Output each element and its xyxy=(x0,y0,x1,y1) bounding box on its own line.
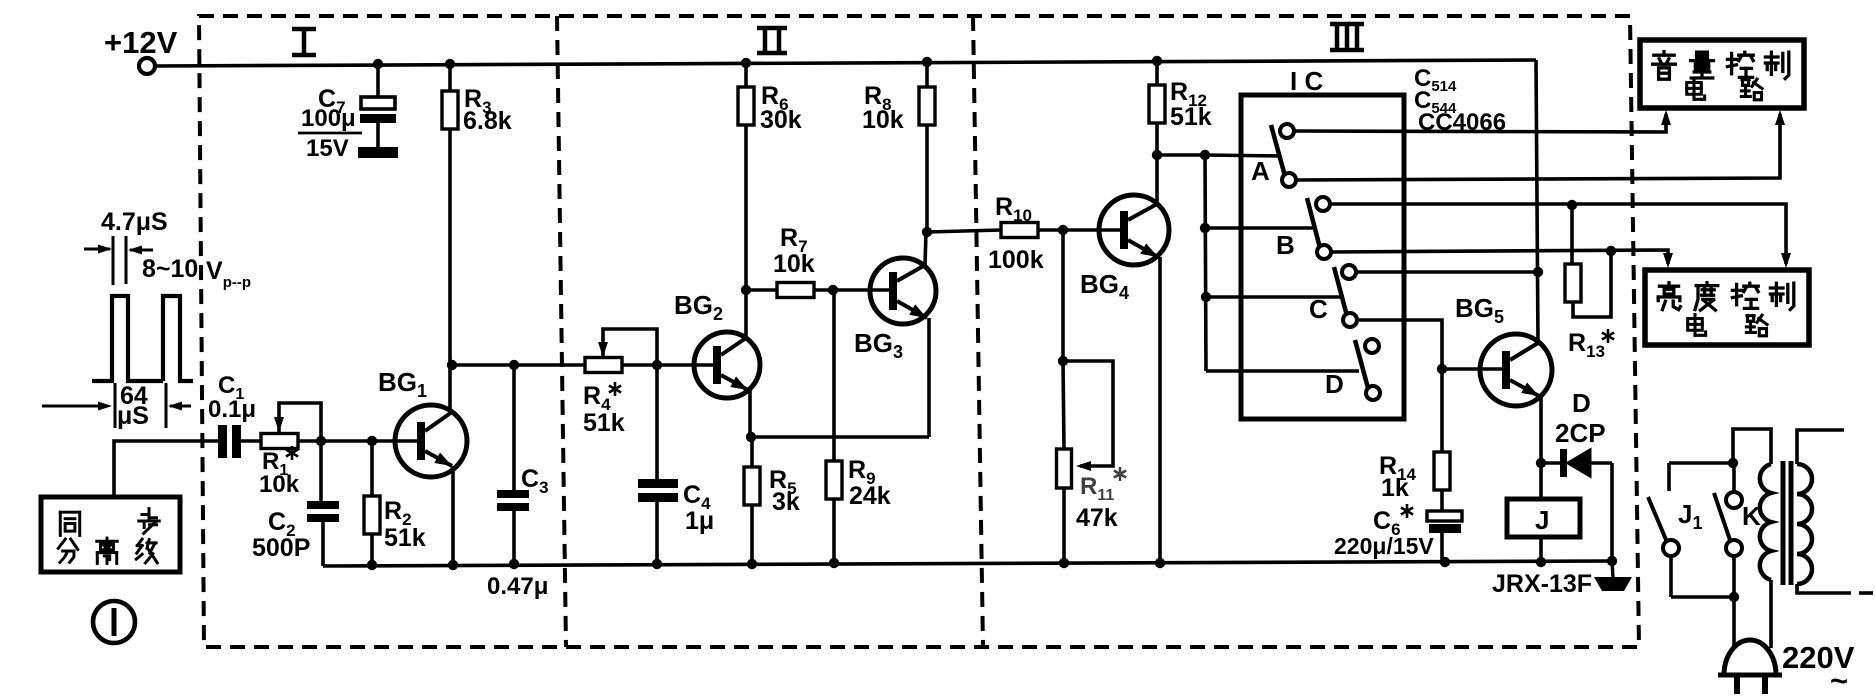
node R1 output xyxy=(316,436,326,446)
label C xyxy=(1309,294,1328,324)
waveform pulse 2 xyxy=(163,296,193,381)
resistor R13 xyxy=(1565,205,1611,317)
label IC xyxy=(1290,66,1323,96)
stage label I xyxy=(292,29,316,55)
label R9 xyxy=(848,456,876,488)
svg-text:51k: 51k xyxy=(583,409,625,437)
stage label II xyxy=(757,28,787,53)
relay J coil xyxy=(1507,463,1580,562)
svg-text:~: ~ xyxy=(1830,663,1848,696)
capacitor C1 xyxy=(218,425,241,458)
label R6 xyxy=(761,82,789,114)
ground C7 xyxy=(358,147,398,158)
switch A lever xyxy=(1271,125,1285,176)
resistor R10 xyxy=(1001,223,1038,238)
label C6 value xyxy=(1334,533,1434,559)
contact J1 xyxy=(1663,540,1679,556)
transistor BG5 xyxy=(1480,334,1552,406)
arrowhead into volume box left xyxy=(1661,110,1671,125)
wire ground rail xyxy=(323,561,1613,566)
terminal +12V xyxy=(139,58,155,74)
mains plug xyxy=(1718,640,1782,694)
label BG3 xyxy=(854,328,903,362)
contact D bottom xyxy=(1366,386,1380,400)
wire R10 to BG4 base xyxy=(1038,228,1120,232)
label 8~10 xyxy=(142,255,198,283)
label R10 value xyxy=(988,246,1044,274)
label sync separator text row2 xyxy=(58,538,157,563)
switch D lever xyxy=(1355,340,1368,388)
label C2 value xyxy=(252,534,310,562)
label K xyxy=(1742,501,1761,531)
box brightness control xyxy=(1645,270,1809,345)
label R3 xyxy=(464,85,492,117)
wire BG3 collector xyxy=(925,232,926,265)
capacitor C3 xyxy=(497,365,529,564)
wire A input xyxy=(1205,155,1281,156)
label CC4066 xyxy=(1418,109,1506,136)
potentiometer R1 xyxy=(261,434,298,449)
node R13 top xyxy=(1567,200,1577,210)
label R4 value xyxy=(583,409,625,437)
label R13 xyxy=(1568,329,1614,361)
svg-text:8~10: 8~10 xyxy=(142,255,198,283)
label C1 value xyxy=(208,396,256,423)
wire secondary bottom dash xyxy=(1859,591,1873,595)
node C7 on rail xyxy=(373,59,383,69)
arrowhead into brightness box right xyxy=(1781,253,1791,268)
label Vp-p xyxy=(206,257,251,291)
wire BG5 emitter xyxy=(1539,396,1543,463)
label R14 value xyxy=(1381,474,1409,502)
potentiometer R11 xyxy=(1057,361,1072,563)
node R11 wiper loop xyxy=(1058,356,1068,366)
arrowhead into volume box right xyxy=(1775,110,1785,125)
label D diode xyxy=(1572,388,1591,418)
node R12 on rail xyxy=(1152,56,1162,66)
contact A bottom xyxy=(1282,173,1296,187)
wire R1 wiper loop xyxy=(279,403,321,441)
diode D 2CP xyxy=(1541,449,1612,477)
contact K top xyxy=(1726,492,1742,508)
contact A top xyxy=(1280,124,1294,138)
label R8 xyxy=(864,82,892,114)
label C4 value xyxy=(685,507,714,535)
box volume control xyxy=(1640,40,1804,108)
contact K bottom xyxy=(1726,540,1742,556)
wire R4 to BG2 base xyxy=(622,363,714,367)
wire node to BG1 base xyxy=(372,439,417,443)
node R5 bottom xyxy=(747,559,757,569)
wire R4 wiper loop xyxy=(603,329,657,365)
transistor BG3 xyxy=(870,258,936,324)
label B xyxy=(1276,230,1295,260)
transformer core xyxy=(1783,461,1791,585)
label R9 value xyxy=(849,482,891,510)
label 2CP xyxy=(1555,418,1606,448)
contact C top xyxy=(1342,265,1356,279)
node BG4 emitter bottom xyxy=(1155,558,1165,568)
label J xyxy=(1535,505,1549,535)
box sync separator stage xyxy=(41,497,180,572)
wire node to R7 xyxy=(746,288,777,292)
node R5 top xyxy=(746,432,756,442)
wire +12V to BG5 collector xyxy=(1536,60,1538,343)
wire R3 bottom lead xyxy=(448,129,452,412)
wire C top contact xyxy=(1356,270,1538,274)
svg-text:JRX-13F: JRX-13F xyxy=(1492,570,1592,598)
svg-text:J: J xyxy=(1535,505,1549,535)
resistor R5 xyxy=(744,437,760,564)
wire A top to volume box xyxy=(1294,114,1666,132)
dimension ticks 64uS xyxy=(115,383,166,428)
capacitor C4 xyxy=(638,365,678,564)
node rail end ground xyxy=(1607,556,1617,566)
wire sync box to C1 xyxy=(114,441,218,497)
svg-text:D: D xyxy=(1325,369,1344,399)
label volume control row1 xyxy=(1653,52,1789,80)
wire C input xyxy=(1206,295,1341,299)
dimension arrow left 64uS xyxy=(42,402,112,411)
svg-text:100k: 100k xyxy=(988,246,1044,274)
svg-text:30k: 30k xyxy=(760,106,802,134)
node C3 bottom xyxy=(509,559,519,569)
svg-text:B: B xyxy=(1276,230,1295,260)
svg-text:μS: μS xyxy=(117,402,149,430)
svg-text:6.8k: 6.8k xyxy=(463,107,512,135)
arrowhead R11 wiper xyxy=(1076,461,1091,471)
capacitor C2 xyxy=(307,441,339,566)
node K bottom plug xyxy=(1729,592,1739,602)
label C6 xyxy=(1373,504,1413,539)
wire A bottom to volume box xyxy=(1296,114,1780,180)
node R11 bottom xyxy=(1059,558,1069,568)
resistor R8 xyxy=(919,62,935,232)
svg-text:D: D xyxy=(1572,388,1591,418)
contact D top xyxy=(1365,339,1379,353)
node BG1 emitter bottom xyxy=(448,560,458,570)
node R7 R9 junction xyxy=(828,285,838,295)
svg-text:A: A xyxy=(1251,156,1270,186)
svg-text:0.47μ: 0.47μ xyxy=(487,573,548,600)
label R4 xyxy=(583,382,621,414)
wire C bottom contact xyxy=(1357,320,1442,369)
dimension arrow right 64uS xyxy=(168,402,191,411)
label D switch xyxy=(1325,369,1344,399)
contact B bottom xyxy=(1317,245,1331,259)
node bus C xyxy=(1201,292,1211,302)
svg-text:3k: 3k xyxy=(772,488,800,516)
switch K lever xyxy=(1714,493,1730,540)
label R11 value xyxy=(1076,504,1118,532)
contact C bottom xyxy=(1343,313,1357,327)
label R3 value xyxy=(463,107,512,135)
IC box xyxy=(1241,95,1404,419)
wire BG2 emitter xyxy=(748,390,752,437)
svg-text:C: C xyxy=(1309,294,1328,324)
node bus A xyxy=(1200,150,1210,160)
label brightness control row2 xyxy=(1688,315,1767,336)
label JRX-13F xyxy=(1492,570,1592,598)
node C top contact 12V xyxy=(1533,267,1543,277)
stage label III xyxy=(1330,24,1364,50)
label C514 xyxy=(1414,65,1457,95)
svg-text:10k: 10k xyxy=(259,471,300,498)
svg-text:15V: 15V xyxy=(306,135,349,162)
arrowhead R1 wiper xyxy=(274,417,284,432)
dimension ticks 4.7uS xyxy=(113,236,126,285)
label C7 value 100u xyxy=(298,105,362,162)
transistor BG1 xyxy=(395,405,467,477)
node R3 on rail xyxy=(445,59,455,69)
dashed stage box frame I/II/III outer xyxy=(199,16,1639,647)
node BG4 base R11 xyxy=(1058,225,1068,235)
wire J1 bottom lead xyxy=(1669,556,1673,597)
wire R7 to BG3 base xyxy=(814,288,890,292)
label R2 xyxy=(384,497,412,529)
label R5 value xyxy=(772,488,800,516)
dimension arrow right 4.7uS xyxy=(128,246,153,255)
label sync separator text row1 xyxy=(60,509,159,536)
label R8 value xyxy=(862,106,904,134)
resistor R3 xyxy=(442,91,458,129)
resistor R2 xyxy=(364,441,380,564)
label C3 xyxy=(521,465,549,497)
node R8 on rail xyxy=(922,57,932,67)
wire secondary bottom lead xyxy=(1797,584,1851,593)
capacitor C7 xyxy=(360,97,396,147)
waveform pulse 1 xyxy=(92,296,163,381)
node R13 bottom xyxy=(1606,246,1616,256)
wire +12V rail xyxy=(155,60,1536,66)
ground symbol xyxy=(1594,561,1632,591)
label 64uS xyxy=(117,382,149,430)
label C3 value xyxy=(487,573,548,600)
svg-text:I C: I C xyxy=(1290,66,1323,96)
wire B input xyxy=(1205,226,1315,230)
wire bus to D lever xyxy=(1206,369,1359,373)
node K top primary xyxy=(1728,458,1738,468)
label volume control row2 xyxy=(1687,79,1762,100)
potentiometer R4 xyxy=(585,358,622,373)
label BG5 xyxy=(1455,293,1504,327)
label J1 xyxy=(1678,499,1702,533)
transformer secondary winding xyxy=(1797,464,1812,584)
resistor R12 xyxy=(1149,61,1165,155)
node BG5 base R14 xyxy=(1437,364,1447,374)
node R6 on rail xyxy=(741,58,751,68)
wire BG1 collector to R4 xyxy=(452,363,585,367)
label R12 xyxy=(1170,78,1207,110)
wire R3 top lead xyxy=(448,64,452,91)
wire B bottom to brightness box xyxy=(1331,250,1668,264)
wire switch bus vertical xyxy=(1205,155,1206,371)
svg-text:10k: 10k xyxy=(862,106,904,134)
label C4 xyxy=(683,481,711,513)
label brightness control row1 xyxy=(1658,283,1794,311)
label R5 xyxy=(769,466,797,498)
svg-text:47k: 47k xyxy=(1076,504,1118,532)
label +12V xyxy=(104,25,178,60)
node C4 bottom xyxy=(652,559,662,569)
svg-text:100μ: 100μ xyxy=(301,105,356,132)
wire diode to ground rail xyxy=(1610,463,1614,561)
terminal circle 1 marker xyxy=(93,601,135,643)
dashed divider between stage I and II xyxy=(557,16,566,647)
resistor R6 xyxy=(738,63,754,290)
node BG1 collector xyxy=(447,360,457,370)
contact B top xyxy=(1316,197,1330,211)
svg-text:2CP: 2CP xyxy=(1555,418,1606,448)
label R11 xyxy=(1080,467,1126,504)
switch C lever xyxy=(1334,267,1347,316)
node BG2 collector R7 xyxy=(741,285,751,295)
dashed divider between stage II and III xyxy=(973,16,983,647)
svg-text:51k: 51k xyxy=(1170,103,1212,131)
wire K top lead xyxy=(1732,463,1736,492)
node R9 bottom xyxy=(829,558,839,568)
label 220V xyxy=(1782,640,1855,696)
wire J1 K top bus xyxy=(1669,461,1733,465)
wire R1 to R2 node xyxy=(298,439,372,443)
dimension arrow left 4.7uS xyxy=(84,245,112,254)
resistor R14 xyxy=(1434,369,1450,513)
node C3 top xyxy=(509,360,519,370)
arrowhead R4 wiper xyxy=(598,342,608,357)
label C544 xyxy=(1414,87,1457,117)
wire C7 top lead xyxy=(376,64,380,97)
label R2 value xyxy=(384,524,426,552)
capacitor C6 xyxy=(1427,511,1462,563)
label 4.7uS xyxy=(101,208,168,236)
wire to plug left xyxy=(1732,597,1736,648)
node R2 top xyxy=(367,436,377,446)
svg-text:4.7μS: 4.7μS xyxy=(101,208,168,236)
label R12 value xyxy=(1170,103,1212,131)
label C2 xyxy=(268,508,296,540)
wire BG4 emitter xyxy=(1158,257,1162,563)
transistor BG4 xyxy=(1099,195,1169,265)
switch B lever xyxy=(1307,198,1320,248)
svg-text:+12V: +12V xyxy=(104,25,178,60)
transformer primary winding xyxy=(1760,464,1771,580)
wire BG3 collector to R10 xyxy=(927,230,1001,232)
node R4 output xyxy=(652,360,662,370)
node R12 bottom xyxy=(1152,150,1162,160)
arrowhead into brightness box left xyxy=(1663,253,1673,268)
svg-text:500P: 500P xyxy=(252,534,310,562)
svg-text:1μ: 1μ xyxy=(685,507,714,535)
label R6 value xyxy=(760,106,802,134)
wire primary bottom to plug xyxy=(1769,580,1773,648)
wire BG4 collector xyxy=(1155,155,1159,204)
wire BG4 base to R11 xyxy=(1061,230,1065,361)
wire R11 wiper loop xyxy=(1063,361,1113,466)
wire J1 to K bottom xyxy=(1671,595,1734,599)
wire K bottom lead xyxy=(1732,556,1736,597)
resistor R7 xyxy=(777,283,814,298)
label BG4 xyxy=(1080,269,1129,303)
label R7 xyxy=(780,224,808,256)
label A xyxy=(1251,156,1270,186)
wire secondary top lead xyxy=(1797,430,1844,464)
label R1 xyxy=(262,446,298,479)
svg-text:1k: 1k xyxy=(1381,474,1409,502)
wire primary top xyxy=(1733,429,1771,464)
node bus B xyxy=(1200,223,1210,233)
label R1 value xyxy=(259,471,300,498)
wire C1 to R1 xyxy=(241,439,261,443)
node BG5 emitter diode xyxy=(1536,458,1546,468)
wire B top to brightness box xyxy=(1330,204,1786,264)
svg-text:24k: 24k xyxy=(849,482,891,510)
label R14 xyxy=(1379,452,1417,484)
node relay J bottom xyxy=(1536,557,1546,567)
svg-text:0.1μ: 0.1μ xyxy=(208,396,256,423)
label C1 xyxy=(218,372,244,403)
node C6 bottom xyxy=(1440,557,1450,567)
label BG2 xyxy=(674,290,723,324)
wire R12 node to bus xyxy=(1157,153,1205,157)
switch J1 lever xyxy=(1648,497,1667,542)
label R10 xyxy=(995,193,1032,225)
svg-text:51k: 51k xyxy=(384,524,426,552)
label C7 xyxy=(318,85,346,117)
label BG1 xyxy=(378,367,427,401)
wire BG2 collector xyxy=(744,290,748,338)
transistor BG2 xyxy=(694,332,760,398)
svg-text:10k: 10k xyxy=(773,250,815,278)
node R8 BG3 collector xyxy=(922,227,932,237)
svg-text:220μ/15V: 220μ/15V xyxy=(1334,533,1434,559)
label R7 value xyxy=(773,250,815,278)
node R2 bottom xyxy=(367,560,377,570)
resistor R9 xyxy=(826,290,842,563)
wire J1 top lead xyxy=(1667,463,1671,491)
wire to BG5 base xyxy=(1442,367,1502,371)
wire BG3 emitter xyxy=(927,318,931,437)
wire BG1 emitter xyxy=(451,466,455,564)
wire emitter bus BG2 BG3 xyxy=(750,435,929,439)
